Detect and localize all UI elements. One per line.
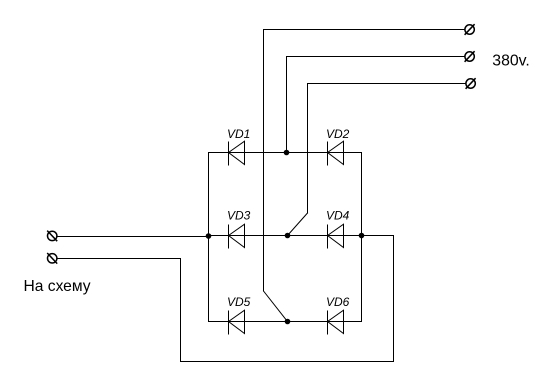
node junction middle rail center: [285, 233, 291, 239]
svg-text:VD1: VD1: [227, 127, 250, 141]
wire minus output horizontal: [57, 258, 181, 260]
svg-text:VD6: VD6: [326, 295, 350, 309]
wire phase B top: [287, 56, 465, 58]
wire right return: [393, 236, 395, 362]
diode VD1: [229, 141, 245, 165]
wire phase A top: [264, 29, 465, 31]
wire top rail: [209, 152, 362, 154]
wire minus output drop: [180, 259, 182, 362]
wire plus output: [57, 236, 209, 238]
node junction middle rail right: [359, 233, 365, 239]
wire phase B drop: [286, 57, 288, 153]
svg-text:VD3: VD3: [227, 209, 251, 223]
svg-text:VD4: VD4: [326, 209, 350, 223]
wire middle rail: [209, 235, 362, 237]
wire left rail: [208, 153, 210, 322]
diode VD5: [229, 310, 245, 334]
terminal phase A: [465, 24, 475, 35]
terminal output plus: [47, 231, 57, 242]
terminal phase C: [466, 78, 476, 89]
diode VD2: [328, 141, 344, 165]
terminal phase B: [465, 51, 475, 62]
diode VD6: [328, 310, 344, 334]
svg-text:VD5: VD5: [227, 295, 251, 309]
node junction middle rail left: [206, 233, 212, 239]
svg-text:На схему: На схему: [24, 278, 91, 295]
wire phase C top: [308, 83, 466, 85]
wire bottom return: [181, 361, 394, 363]
terminal output minus: [47, 253, 57, 264]
wire middle rail extension: [362, 235, 394, 237]
wire phase C drop: [307, 84, 309, 214]
svg-text:VD2: VD2: [326, 127, 350, 141]
node junction bottom rail center: [285, 319, 291, 325]
wire phase A drop: [263, 30, 265, 292]
wire phase C slant: [288, 213, 308, 236]
node junction top rail phase B: [284, 150, 290, 156]
diode VD3: [229, 224, 245, 248]
wire bottom rail: [209, 321, 362, 323]
svg-text:380v.: 380v.: [492, 53, 529, 70]
diode VD4: [328, 224, 344, 248]
wire phase A slant: [264, 291, 288, 322]
wire right rail: [361, 153, 363, 322]
